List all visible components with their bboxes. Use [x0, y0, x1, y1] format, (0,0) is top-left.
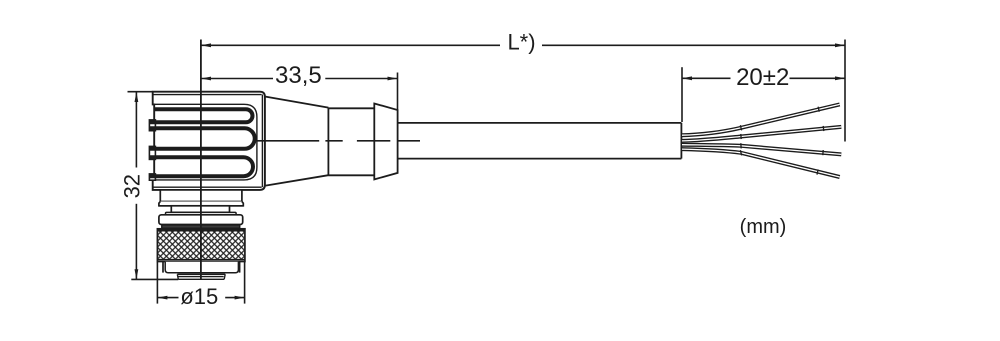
centerline vertical axis of connector mating end [200, 40, 202, 280]
wire 2 [682, 126, 841, 141]
dimension 20±2 line [682, 77, 731, 79]
neck 2 [171, 206, 229, 213]
arrow 20±2 left [682, 76, 692, 80]
mating face tray [177, 274, 225, 279]
extension line 32 top [128, 91, 153, 93]
body inner bottom line [153, 186, 261, 188]
strain relief tab left 1 [149, 120, 155, 131]
cable centerline dashes [257, 140, 319, 142]
extension line ø15 right [244, 262, 246, 304]
sleeve top line [328, 107, 374, 109]
rib run R5 [150, 155, 244, 159]
rib run R4 [150, 147, 245, 151]
arrow L right [835, 43, 845, 47]
body inner contour behind ribs [150, 104, 257, 180]
svg-text:20±2: 20±2 [736, 64, 789, 91]
arrow 33,5 right [388, 77, 398, 81]
svg-text:L*): L*) [507, 30, 535, 55]
body inner right edge [261, 95, 263, 188]
arrow 20±2 right [835, 76, 845, 80]
extension line 20±2 left [681, 67, 683, 122]
arrow ø15 right [235, 296, 245, 300]
arrow 33,5 left [201, 77, 211, 81]
dimension L*) line [201, 44, 500, 46]
wire 3 [682, 143, 841, 155]
rib run R3 [150, 126, 245, 130]
arrow 32 top [135, 92, 139, 102]
bottom cap outer walls [162, 262, 164, 273]
wire 4 [682, 149, 840, 177]
body inner top line [153, 94, 261, 96]
svg-text:33,5: 33,5 [275, 62, 322, 89]
dark band [162, 225, 240, 228]
cable bottom line [398, 158, 682, 160]
svg-text:32: 32 [120, 174, 145, 198]
neck flare lip [159, 202, 243, 206]
bottom cap inner [165, 262, 238, 273]
rib run R1 [155, 107, 246, 111]
cable top line [398, 122, 682, 124]
arrow L left [201, 43, 211, 47]
connector body outline [153, 92, 265, 190]
strain relief tab left 2 [149, 146, 155, 159]
upper disc [159, 215, 243, 225]
extension line ø15 left [156, 262, 158, 304]
svg-text:(mm): (mm) [740, 216, 787, 238]
rib arc A2 [245, 128, 255, 149]
strain relief tab left 3 [149, 174, 155, 180]
extension line 32 bottom [131, 278, 178, 280]
sleeve bottom line [328, 174, 374, 176]
cable end [680, 123, 682, 159]
rib arc A3 [244, 157, 254, 176]
knurled ring [157, 229, 245, 262]
dimension ø15 line [157, 297, 178, 299]
extension line right [844, 40, 846, 142]
rib arc A1 [246, 109, 253, 122]
dimension 33,5 line [201, 78, 273, 80]
taper bottom line [266, 175, 329, 185]
rib run R6 [150, 174, 244, 178]
dimension 32 line [135, 92, 137, 167]
neck below body [160, 190, 242, 202]
arrow 32 bottom [135, 269, 139, 279]
taper end vertical [327, 108, 329, 176]
extension line 33,5 right [397, 73, 399, 110]
taper top line [266, 97, 329, 108]
rib run R2 [150, 120, 246, 124]
collar outline [374, 104, 397, 180]
wire 1 [682, 104, 840, 135]
arrow ø15 left [157, 296, 167, 300]
svg-text:ø15: ø15 [180, 284, 218, 309]
thin plate [166, 212, 237, 214]
